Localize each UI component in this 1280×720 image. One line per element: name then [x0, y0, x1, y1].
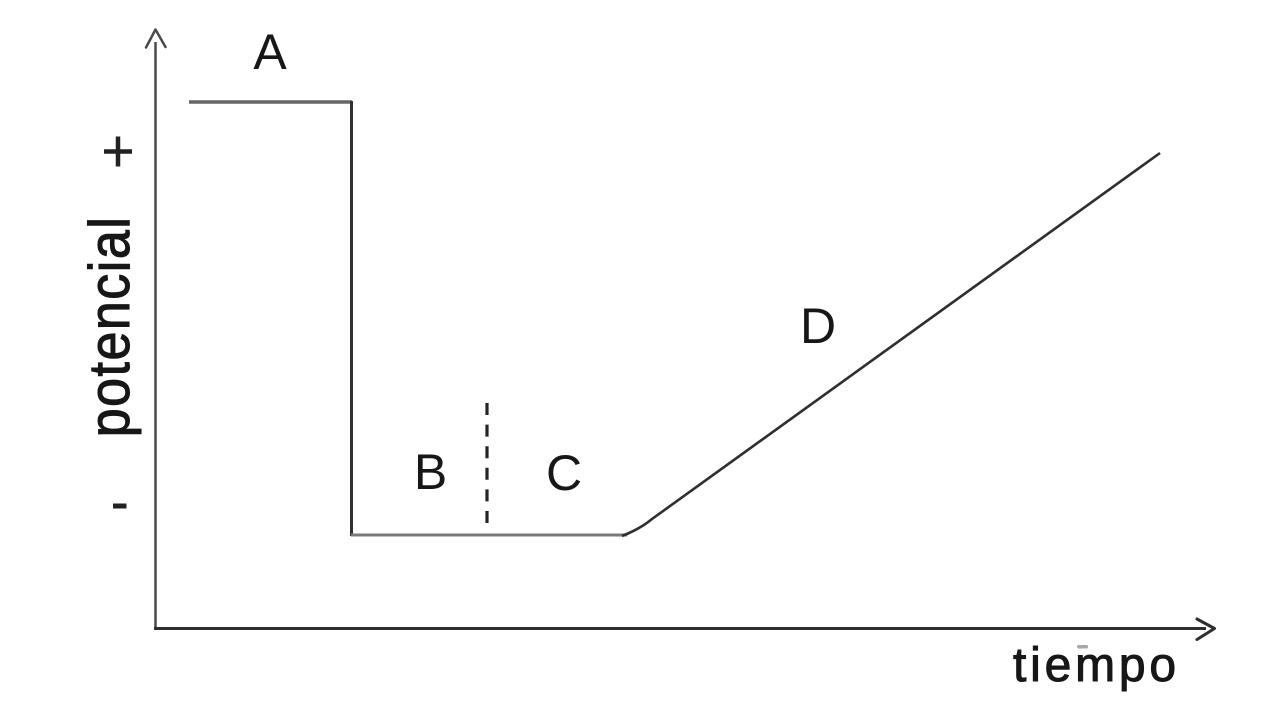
smudge artifact above tiempo [1077, 645, 1088, 649]
curve segment D: rising diagonal [622, 153, 1160, 536]
svg-text:C: C [546, 445, 582, 501]
svg-text:B: B [414, 444, 447, 500]
x-axis arrowhead [1197, 619, 1215, 640]
y-axis arrowhead [146, 30, 166, 48]
curve segment A: top plateau [189, 100, 352, 104]
svg-text:D: D [800, 298, 836, 354]
svg-text:potencial: potencial [78, 216, 142, 438]
minus sign on y-axis [113, 504, 127, 509]
curve: vertical drop [350, 101, 353, 536]
plus sign on y-axis [104, 137, 132, 167]
curve segment B-C: bottom plateau [351, 534, 627, 537]
x-axis (tiempo) [154, 627, 1206, 630]
svg-text:tiempo: tiempo [1013, 639, 1180, 692]
dashed divider between B and C [485, 403, 488, 523]
svg-text:A: A [253, 24, 287, 80]
y-axis (potencial) [154, 42, 157, 630]
